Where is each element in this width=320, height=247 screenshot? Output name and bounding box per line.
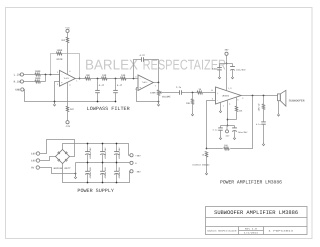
- capacitor 0.47 a: [97, 79, 99, 91]
- wire mute node: [228, 119, 237, 121]
- svg-text:18V: 18V: [31, 160, 36, 163]
- capacitor 0.1u (V+): [219, 64, 221, 68]
- svg-text:2.2u: 2.2u: [176, 86, 182, 89]
- feedback loop wire (light): [51, 54, 57, 75]
- svg-text:BARLEX: BARLEX: [85, 57, 138, 73]
- wire pin4 down: [227, 100, 229, 126]
- terminal +35V psu: [130, 154, 133, 157]
- terminal -35V psu: [130, 170, 133, 173]
- wire V+ pin: [226, 64, 228, 91]
- wire: [24, 81, 35, 83]
- svg-text:10R/1W: 10R/1W: [258, 103, 261, 111]
- resistor 2K2 (V+): [66, 37, 68, 43]
- svg-text:18V: 18V: [31, 153, 36, 156]
- wire: [126, 78, 138, 80]
- svg-text:4700u/50V: 4700u/50V: [104, 167, 107, 179]
- resistor 20K shunt: [192, 93, 194, 99]
- op-amp U1A TL072: [60, 70, 76, 86]
- svg-text:+35V: +35V: [135, 154, 141, 157]
- capacitor 4700u bank col 3 top: [116, 144, 118, 152]
- capacitor 4700u bank col 2 bottom: [102, 163, 104, 172]
- capacitor 0.1u (V-): [220, 126, 222, 128]
- resistor 20K feedback: [224, 147, 230, 150]
- svg-text:SUBWOOFER AMPLIFIER LM3886: SUBWOOFER AMPLIFIER LM3886: [214, 210, 298, 216]
- svg-text:POWER SUPPLY: POWER SUPPLY: [77, 188, 114, 194]
- zobel capacitor 0.1u: [261, 121, 266, 123]
- capacitor 2.2u: [179, 90, 181, 94]
- svg-text:LOWPASS FILTER: LOWPASS FILTER: [87, 106, 130, 112]
- wire output: [241, 95, 278, 97]
- svg-text:TL072: TL072: [142, 81, 148, 84]
- wire wiper out: [161, 92, 179, 94]
- svg-text:10K: 10K: [102, 74, 107, 77]
- wire to pin8: [67, 43, 69, 75]
- wire - rail: [63, 164, 130, 183]
- wire AC1: [40, 140, 75, 157]
- svg-text:100R: 100R: [150, 92, 156, 95]
- resistor 1K to gnd: [205, 151, 207, 157]
- terminal 0 psu: [130, 161, 133, 164]
- svg-text:4700u/50V: 4700u/50V: [118, 167, 121, 179]
- terminal -35V: [226, 126, 228, 130]
- resistor 2K2 (V-): [66, 106, 68, 112]
- svg-text:POWER AMPLIFIER LM3886: POWER AMPLIFIER LM3886: [220, 180, 282, 186]
- capacitor 4700u bank col 1 top: [87, 144, 89, 152]
- svg-text:100u/50V: 100u/50V: [238, 131, 248, 134]
- svg-text:0.1u: 0.1u: [212, 68, 218, 71]
- svg-text:35V: 35V: [225, 48, 230, 51]
- wire: [40, 74, 59, 76]
- svg-text:2K2: 2K2: [61, 39, 66, 42]
- wire -in: [207, 101, 216, 149]
- resistor 100K (L): [35, 73, 41, 76]
- svg-text:1/1/2013: 1/1/2013: [244, 232, 259, 235]
- svg-text:-15V: -15V: [65, 125, 71, 128]
- svg-text:0V: 0V: [31, 167, 35, 170]
- op-amp U1B TL072: [138, 75, 153, 91]
- wire pin7 gnd: [220, 102, 222, 109]
- svg-text:1 PDF13013: 1 PDF13013: [268, 230, 294, 233]
- wire + rail: [63, 144, 130, 156]
- wire AC2: [40, 157, 56, 161]
- capacitor 4700u bank col 3 bottom: [116, 163, 118, 172]
- svg-text:VOLUME: VOLUME: [162, 95, 171, 98]
- wire output stage2: [153, 82, 158, 84]
- wire: [182, 92, 198, 94]
- wire +in stage2 to gnd: [137, 88, 159, 102]
- wire 0V: [40, 168, 76, 174]
- wire: [67, 33, 69, 38]
- svg-text:GND: GND: [15, 89, 20, 92]
- wire +in to gnd: [55, 82, 60, 102]
- capacitor 100u/50V (V+): [232, 64, 234, 67]
- wire: [91, 78, 102, 80]
- wire mid rail: [76, 162, 130, 164]
- potentiometer VOLUME 100R: [158, 83, 160, 90]
- svg-text:LM3886: LM3886: [222, 94, 230, 97]
- capacitor 4700u bank col 2 top: [102, 144, 104, 152]
- svg-text:20K: 20K: [186, 102, 191, 105]
- node dots input: [45, 74, 47, 76]
- resistor 10K b: [102, 77, 108, 80]
- feedback wire: [230, 96, 252, 149]
- speaker SUBWOOFER: [278, 94, 281, 101]
- bridge rectifier: [56, 150, 70, 164]
- resistor 100K (R): [35, 80, 41, 83]
- resistor 10K a: [85, 77, 91, 80]
- svg-text:0.1u: 0.1u: [256, 123, 262, 126]
- wire: [24, 74, 35, 76]
- svg-text:GAIN: GAIN: [57, 58, 63, 61]
- pot wiper: [160, 92, 162, 94]
- wire speaker gnd: [278, 101, 280, 113]
- capacitor 4700u bank col 1 bottom: [87, 163, 89, 172]
- svg-text:2K2: 2K2: [70, 108, 75, 111]
- zobel resistor 10R/1W: [263, 96, 265, 104]
- capacitor 0.47 b: [115, 79, 117, 91]
- svg-text:BARLEX RESPECTAIZER: BARLEX RESPECTAIZER: [207, 230, 237, 233]
- svg-text:100K: 100K: [57, 49, 63, 52]
- title block: [206, 207, 308, 235]
- resistor 100K GAIN feedback: [56, 52, 62, 55]
- resistor 1K series: [197, 91, 203, 94]
- wire: [67, 112, 69, 121]
- svg-text:10K: 10K: [86, 74, 91, 77]
- svg-text:4700u/50V: 4700u/50V: [89, 147, 92, 159]
- svg-text:TL072: TL072: [63, 77, 69, 80]
- V- rail: [221, 125, 235, 127]
- svg-text:100u/50V: 100u/50V: [236, 69, 246, 72]
- svg-text:4700u/50V: 4700u/50V: [104, 147, 107, 159]
- svg-text:R.IN: R.IN: [14, 81, 21, 84]
- svg-text:SUBWOOFER: SUBWOOFER: [289, 99, 305, 102]
- wire V+: [226, 55, 228, 63]
- svg-text:CHASSIS GROUND: CHASSIS GROUND: [192, 164, 210, 167]
- svg-text:0.47: 0.47: [117, 84, 123, 87]
- wire gnd bus: [24, 90, 116, 102]
- V+ rail: [220, 63, 233, 65]
- svg-text:0.1u: 0.1u: [213, 128, 219, 131]
- svg-text:0.47: 0.47: [99, 84, 105, 87]
- wire output stage1: [75, 78, 85, 80]
- svg-text:100K: 100K: [35, 70, 41, 73]
- resistor 20K mute: [236, 97, 238, 106]
- svg-text:0.22: 0.22: [140, 54, 146, 57]
- capacitor 100u/50V (V-): [234, 126, 236, 128]
- power amp U2 LM3886: [216, 87, 242, 104]
- wire pin4 down: [67, 82, 69, 106]
- resistor 10K c: [121, 77, 127, 80]
- terminal -15V: [66, 121, 69, 124]
- svg-text:4700u/50V: 4700u/50V: [89, 167, 92, 179]
- svg-text:100K: 100K: [35, 77, 41, 80]
- feedback capacitor 0.22: [134, 60, 142, 79]
- ground arrow: [53, 102, 56, 107]
- svg-text:4700u/50V: 4700u/50V: [118, 147, 121, 159]
- wire: [40, 81, 45, 83]
- svg-text:10K: 10K: [121, 74, 126, 77]
- svg-text:Rev 1.0: Rev 1.0: [245, 227, 258, 230]
- svg-text:-35V: -35V: [135, 170, 141, 173]
- wire: [107, 78, 121, 80]
- wire to amp: [203, 92, 216, 94]
- svg-text:L.IN: L.IN: [14, 74, 21, 77]
